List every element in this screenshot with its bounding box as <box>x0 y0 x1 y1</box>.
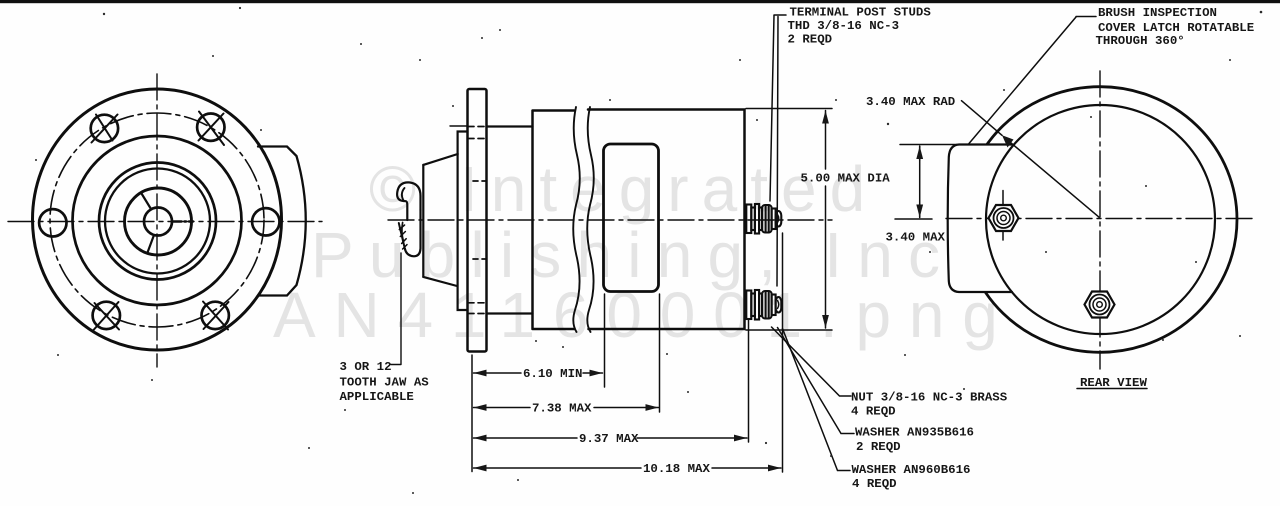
bolt hole bottom-right <box>202 302 229 329</box>
lower terminal stud stack <box>746 290 781 320</box>
intermediate housing block <box>487 127 533 314</box>
6.10 extension line <box>604 294 606 387</box>
brush cover band <box>604 144 659 292</box>
10.18 extension line <box>782 233 784 472</box>
hub circle <box>144 208 172 236</box>
nut A rings <box>994 208 1014 228</box>
3.40 MAX top extension <box>900 144 958 146</box>
svg-text:9.37 MAX: 9.37 MAX <box>579 432 639 446</box>
svg-text:WASHER AN960B616: WASHER AN960B616 <box>852 463 971 477</box>
svg-text:THROUGH 360°: THROUGH 360° <box>1096 34 1185 48</box>
motor body outline <box>533 110 745 330</box>
flange hidden dash y181 <box>473 180 486 182</box>
brush cover latch lug <box>948 145 1012 293</box>
flange hidden dash y126.5 <box>468 126 486 128</box>
bolt hole right <box>252 208 279 235</box>
dim 5.00 MAX DIA line lower <box>825 186 827 328</box>
svg-text:© Integrated: © Integrated <box>369 153 878 225</box>
svg-text:WASHER AN935B616: WASHER AN935B616 <box>855 426 974 440</box>
rear inner circle <box>986 105 1215 334</box>
svg-text:4 REQD: 4 REQD <box>852 477 897 491</box>
rear vertical centerline <box>1099 71 1101 369</box>
slash top-left bolt <box>92 115 118 143</box>
outer flange circle <box>33 89 282 350</box>
flange hidden dash y259 <box>473 258 486 260</box>
dim 9.37 line left <box>474 437 578 439</box>
left dim extension line (flange face) <box>471 355 473 472</box>
break wavy line left <box>573 107 580 332</box>
cone top edge <box>423 154 457 165</box>
flange hidden dash y138.5 <box>468 138 486 140</box>
bolt hole top-right <box>197 114 224 141</box>
bolt circle (dash-dot) <box>50 113 264 327</box>
slash bottom-right bolt <box>203 302 229 330</box>
boss inner circle <box>105 169 210 274</box>
svg-text:TOOTH JAW AS: TOOTH JAW AS <box>340 376 430 390</box>
dim 6.10 line left <box>474 372 522 374</box>
cone left edge <box>422 165 424 277</box>
jaw circle <box>125 188 192 255</box>
jaw hook outline <box>397 182 420 220</box>
brush label leader <box>969 17 1096 144</box>
flange hidden dash y302.8 <box>468 302 486 304</box>
dim 10.18 line left <box>474 467 642 469</box>
jaw hook inner curl <box>402 188 405 201</box>
rear view underline <box>1077 388 1147 390</box>
centerline dash left of rear view <box>895 218 932 220</box>
terminal label leader dash <box>774 14 786 16</box>
svg-text:5.00 MAX DIA: 5.00 MAX DIA <box>801 172 891 186</box>
jaw wedge left edge <box>399 223 405 249</box>
jaw spline line upper <box>142 194 152 210</box>
mounting flange (tall) <box>468 89 487 352</box>
svg-text:2 REQD: 2 REQD <box>788 33 833 47</box>
svg-text:THD 3/8-16 NC-3: THD 3/8-16 NC-3 <box>788 19 900 33</box>
side view centerline <box>388 219 832 221</box>
svg-text:REAR VIEW: REAR VIEW <box>1080 376 1147 390</box>
jaw wedge right edge <box>402 223 403 242</box>
svg-text:APPLICABLE: APPLICABLE <box>340 390 414 404</box>
slash top-right bolt <box>199 112 225 146</box>
svg-text:TERMINAL POST STUDS: TERMINAL POST STUDS <box>790 6 932 20</box>
body bottom extension line <box>746 329 832 331</box>
dim 5.00 MAX DIA line upper <box>825 111 827 170</box>
terminal nut B (hex) <box>1085 292 1115 318</box>
svg-text:6.10 MIN: 6.10 MIN <box>523 367 583 381</box>
7.38 extension line <box>659 294 661 412</box>
nut B rings <box>1090 295 1110 315</box>
rear outer circle <box>963 87 1237 353</box>
svg-text:4 REQD: 4 REQD <box>851 405 896 419</box>
flange hidden dash y313.5 <box>468 313 486 315</box>
terminal leader to lower stud <box>777 17 778 287</box>
front view horizontal centerline <box>8 221 322 223</box>
dim 7.38 line left <box>474 407 531 409</box>
svg-text:2 REQD: 2 REQD <box>856 440 901 454</box>
svg-text:3.40 MAX RAD: 3.40 MAX RAD <box>866 95 955 109</box>
svg-text:7.38 MAX: 7.38 MAX <box>532 402 592 416</box>
bolt hole top-left <box>91 115 118 142</box>
break wavy line right <box>587 107 594 332</box>
radius leader to text <box>962 101 1003 136</box>
dim 3.40 MAX line <box>919 147 921 218</box>
flange inner circle <box>73 136 242 305</box>
svg-text:3.40 MAX: 3.40 MAX <box>886 231 946 245</box>
terminal leader to upper stud <box>770 16 774 202</box>
dim 6.10 line right <box>583 372 603 374</box>
rear horizontal centerline <box>946 218 1252 220</box>
svg-text:AN41160001.png: AN41160001.png <box>273 279 1016 351</box>
svg-text:COVER LATCH ROTATABLE: COVER LATCH ROTATABLE <box>1098 21 1254 35</box>
body top extension line <box>746 108 832 110</box>
jaw spline line right (dashed) <box>173 220 194 222</box>
dim 7.38 line right <box>594 407 659 409</box>
nut A stud tick below <box>1002 232 1004 240</box>
upper terminal stud stack <box>746 204 781 234</box>
svg-text:10.18 MAX: 10.18 MAX <box>643 462 710 476</box>
radius line to center <box>1004 137 1099 217</box>
dim 10.18 line right <box>712 467 781 469</box>
mounting pad tab (right lug of flange) <box>258 147 306 296</box>
svg-text:3 OR 12: 3 OR 12 <box>340 360 392 374</box>
washer/nut label leaders <box>772 327 852 396</box>
bolt hole bottom-left <box>93 302 120 329</box>
jaw spline line lower <box>148 235 155 253</box>
jaw bottom curl and right edge <box>405 210 421 256</box>
svg-text:NUT 3/8-16 NC-3 BRASS: NUT 3/8-16 NC-3 BRASS <box>851 391 1008 405</box>
bolt hole left <box>39 209 66 236</box>
cone bottom edge <box>423 277 457 286</box>
slash bottom-left bolt <box>94 302 120 330</box>
jaw wedge hatch <box>399 225 407 249</box>
small ledge line above plate <box>450 125 468 127</box>
9.37 extension line <box>748 320 750 442</box>
radius arrowhead <box>1002 135 1014 147</box>
boss outer circle <box>99 163 216 280</box>
terminal nut A (hex) <box>989 205 1019 231</box>
tooth jaw label leader <box>391 253 401 365</box>
front view vertical centerline <box>156 74 158 367</box>
nut A stud tick above <box>1002 191 1004 205</box>
top border bar <box>0 0 1280 3</box>
svg-text:BRUSH INSPECTION: BRUSH INSPECTION <box>1098 6 1217 20</box>
dim 9.37 line right <box>637 437 747 439</box>
bearing plate <box>458 132 468 311</box>
